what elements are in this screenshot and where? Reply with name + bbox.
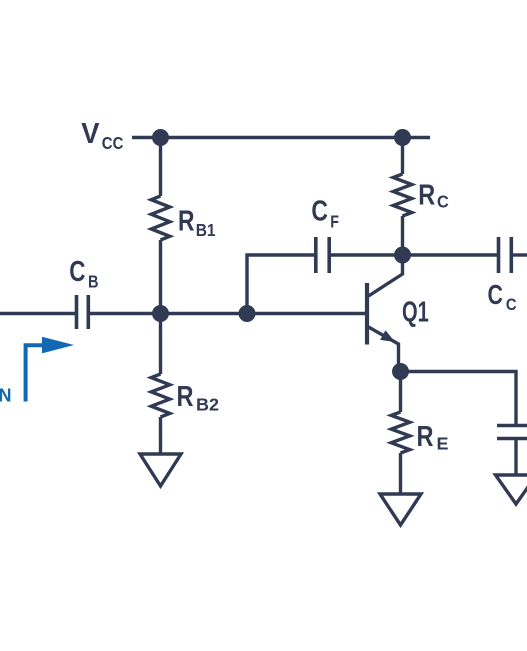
node RC top junction dot [394, 129, 411, 146]
svg-text:N: N [0, 386, 12, 406]
capacitor CC [499, 237, 512, 273]
svg-text:R: R [178, 206, 195, 238]
transistor Q1 [367, 256, 403, 373]
svg-text:B2: B2 [196, 395, 219, 415]
capacitor CB [77, 295, 89, 329]
wire RC top [401, 138, 404, 175]
wire top VCC rail [132, 136, 430, 139]
wire CF to collector node [331, 253, 403, 256]
svg-text:R: R [417, 421, 434, 453]
wire CF branch riser [247, 255, 315, 314]
wire collector node to CC [403, 253, 498, 256]
node collector junction dot [394, 247, 411, 264]
wire RB1 to base node [159, 240, 162, 314]
svg-text:F: F [330, 212, 339, 232]
svg-text:C: C [69, 256, 85, 288]
svg-text:Q1: Q1 [402, 297, 429, 329]
label RE [417, 421, 449, 454]
wire input from left edge to CB [0, 312, 75, 315]
svg-text:C: C [437, 192, 449, 212]
wire RC to collector node [401, 216, 404, 255]
svg-text:B1: B1 [196, 220, 216, 240]
wire VCC rail to RB1 [159, 138, 162, 197]
wire RE to ground [399, 453, 402, 494]
node base junction dot [152, 305, 169, 322]
wire RB2 top [159, 314, 162, 375]
svg-text:R: R [177, 381, 194, 413]
svg-text:E: E [437, 434, 449, 454]
wire CC to right edge [513, 253, 527, 256]
svg-text:C: C [506, 295, 517, 314]
wire CE to ground [514, 440, 517, 476]
label VCC [81, 118, 123, 153]
label RB1 [178, 206, 216, 241]
label RC [418, 180, 449, 212]
label RB2 [177, 381, 220, 415]
svg-text:B: B [88, 272, 99, 292]
resistor RB2 [151, 374, 170, 417]
resistor RE [391, 412, 410, 453]
svg-text:CC: CC [102, 133, 124, 153]
node emitter junction dot [392, 363, 409, 380]
wire IN arrow (signal flow) [26, 345, 46, 401]
wire emitter to RE [399, 372, 402, 413]
ground below CE [496, 475, 527, 504]
ground below RB2 [140, 454, 181, 486]
wire RB2 to ground [159, 417, 162, 454]
node CF branch junction dot [239, 305, 256, 322]
wire emitter node to CE branch [401, 372, 517, 425]
label CB [69, 256, 98, 292]
node VCC junction dot [152, 129, 169, 146]
label CF [311, 196, 339, 232]
resistor RC [393, 174, 412, 216]
ground below RE [380, 494, 421, 525]
svg-text:C: C [488, 279, 503, 310]
capacitor CE [497, 426, 527, 439]
svg-text:R: R [418, 180, 435, 212]
capacitor CF [316, 237, 329, 273]
label CC [488, 279, 517, 314]
wire CB to base node [90, 312, 366, 315]
resistor RB1 [151, 196, 170, 240]
svg-text:V: V [81, 118, 100, 150]
svg-text:C: C [311, 196, 328, 228]
